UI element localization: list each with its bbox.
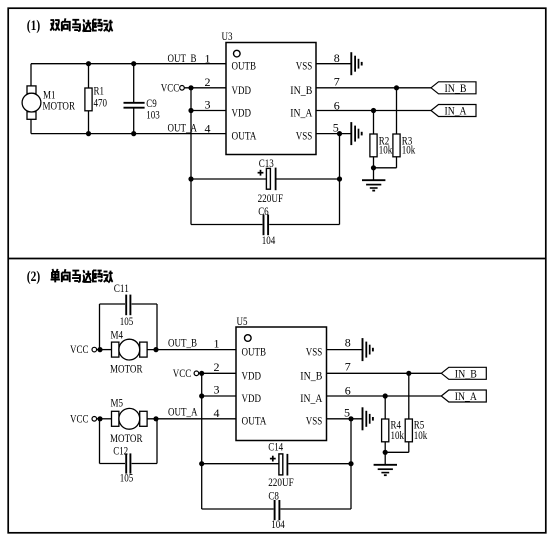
svg-text:IN_B: IN_B bbox=[445, 81, 467, 95]
svg-text:105: 105 bbox=[120, 470, 134, 484]
wire R3 top lead bbox=[396, 88, 398, 134]
junction C9/OUT_A bbox=[131, 131, 136, 136]
wire R2 top lead bbox=[373, 111, 375, 135]
junction R5/IN_B bbox=[406, 371, 411, 376]
wire VCC to M5 bbox=[97, 418, 112, 420]
wire motor M1 top lead bbox=[30, 64, 32, 86]
wire C8 right bbox=[281, 508, 352, 510]
svg-text:8: 8 bbox=[345, 336, 351, 350]
wire net IN_A (U5 pin6) bbox=[327, 395, 442, 397]
svg-text:VSS: VSS bbox=[296, 128, 313, 142]
wire ground stem bbox=[373, 168, 375, 180]
svg-text:OUTA: OUTA bbox=[242, 414, 267, 428]
capacitor C14 plates (polarized) bbox=[279, 454, 283, 475]
port flag IN_A bbox=[431, 104, 476, 118]
svg-text:4: 4 bbox=[205, 121, 211, 135]
svg-text:8: 8 bbox=[334, 51, 340, 65]
resistor R5 bbox=[405, 419, 412, 442]
wire U5 pin 5 to ground bbox=[327, 418, 363, 420]
wire motor M1 bottom lead bbox=[30, 119, 32, 133]
svg-text:2: 2 bbox=[214, 360, 220, 374]
wire C14 left bbox=[202, 463, 279, 465]
chip U3 body bbox=[226, 43, 316, 155]
svg-text:10k: 10k bbox=[414, 428, 428, 442]
port flag IN_B bbox=[431, 81, 476, 95]
svg-text:VCC: VCC bbox=[173, 366, 192, 380]
wire R3 to R2 junction bbox=[374, 167, 397, 169]
svg-text:VCC: VCC bbox=[70, 342, 89, 356]
junction R2/IN_A bbox=[371, 108, 376, 113]
wire net OUT_B (pin1) bbox=[31, 63, 226, 65]
motor M5 bbox=[112, 408, 148, 429]
wire R1 top lead bbox=[88, 64, 90, 88]
junction pin5/cap rail bbox=[337, 131, 342, 136]
svg-text:104: 104 bbox=[262, 233, 276, 247]
section divider line bbox=[8, 258, 546, 260]
wire C12 loop bottom left bbox=[100, 463, 126, 465]
junction M4/C11 right bbox=[153, 347, 158, 352]
svg-text:6: 6 bbox=[345, 383, 351, 397]
svg-text:10k: 10k bbox=[402, 142, 416, 156]
section 1 title "(1) 双向马达驱动" bbox=[27, 18, 41, 34]
junction VCC rail top bbox=[188, 85, 193, 90]
svg-text:3: 3 bbox=[205, 98, 211, 112]
wire VCC to pin 2 bbox=[184, 87, 226, 89]
capacitor C9 plates bbox=[124, 103, 145, 108]
svg-text:4: 4 bbox=[214, 406, 220, 420]
wire net IN_B (pin7) bbox=[316, 87, 431, 89]
junction rail/C13 bbox=[188, 176, 193, 181]
wire R4 bottom lead bbox=[384, 442, 386, 453]
svg-text:1: 1 bbox=[214, 337, 220, 351]
svg-text:220UF: 220UF bbox=[268, 475, 294, 489]
junction R1/OUT_B bbox=[86, 61, 91, 66]
svg-text:(1): (1) bbox=[27, 18, 41, 34]
wire net IN_B (U5 pin7) bbox=[327, 372, 442, 374]
svg-text:IN_B: IN_B bbox=[300, 368, 322, 382]
wire R3 bottom lead bbox=[396, 157, 398, 168]
svg-text:OUT_A: OUT_A bbox=[168, 405, 198, 419]
svg-text:VDD: VDD bbox=[232, 83, 252, 97]
svg-text:C14: C14 bbox=[268, 439, 283, 453]
wire R5 to R4 junction bbox=[385, 451, 409, 453]
wire U5 pin 8 to ground bbox=[327, 349, 363, 351]
wire VCC vertical rail down to C8 bbox=[201, 373, 203, 509]
junction pin5/cap rail (sec2) bbox=[348, 416, 353, 421]
wire C13 left bbox=[191, 178, 266, 180]
svg-text:6: 6 bbox=[334, 98, 340, 112]
ground (rotated) at pin 8 bbox=[351, 52, 361, 75]
wire C11 left vertical bbox=[99, 304, 101, 350]
svg-text:MOTOR: MOTOR bbox=[43, 99, 76, 113]
svg-text:IN_A: IN_A bbox=[455, 389, 477, 403]
junction R4/R5/ground bbox=[383, 450, 388, 455]
svg-text:7: 7 bbox=[334, 74, 340, 88]
wire C12 loop bottom right bbox=[132, 463, 157, 465]
C14 plus sign bbox=[270, 456, 276, 462]
wire C11 loop top left bbox=[100, 303, 126, 305]
svg-text:10k: 10k bbox=[391, 428, 405, 442]
svg-text:VCC: VCC bbox=[161, 80, 180, 94]
svg-text:VSS: VSS bbox=[306, 414, 323, 428]
terminal circle VCC pin2 bbox=[194, 371, 199, 376]
svg-text:OUT_B: OUT_B bbox=[168, 336, 197, 350]
svg-text:VDD: VDD bbox=[242, 391, 262, 405]
ground (rotated) at pin 5 bbox=[351, 122, 361, 145]
terminal circle VCC M4 bbox=[92, 347, 97, 352]
wire VCC to U5 pin 3 bbox=[202, 395, 236, 397]
wire C14 right bbox=[288, 463, 351, 465]
svg-text:1: 1 bbox=[205, 52, 211, 66]
wire C6 left bbox=[191, 224, 262, 226]
C13 plus sign bbox=[258, 170, 264, 176]
wire C11 loop top right bbox=[132, 303, 157, 305]
svg-text:IN_B: IN_B bbox=[455, 367, 477, 381]
svg-text:OUT_B: OUT_B bbox=[168, 51, 197, 65]
wire R2 bottom lead bbox=[373, 157, 375, 168]
svg-text:VDD: VDD bbox=[242, 368, 262, 382]
svg-text:7: 7 bbox=[345, 360, 351, 374]
resistor R4 bbox=[382, 419, 389, 442]
wire net OUT_A to U5 pin4 bbox=[147, 418, 236, 420]
wire net IN_A (pin6) bbox=[316, 110, 431, 112]
motor M4 bbox=[112, 339, 148, 360]
terminal circle VCC bbox=[180, 86, 185, 91]
wire R4 top lead bbox=[384, 396, 386, 419]
svg-text:(2): (2) bbox=[27, 269, 41, 285]
resistor R3 bbox=[393, 134, 400, 157]
junction rail/pin3 (sec2) bbox=[199, 393, 204, 398]
junction VCC/C11 left bbox=[97, 347, 102, 352]
svg-text:VSS: VSS bbox=[296, 59, 313, 73]
svg-text:OUT_A: OUT_A bbox=[168, 121, 198, 135]
svg-text:IN_A: IN_A bbox=[300, 391, 322, 405]
wire net OUT_A (pin4) bbox=[31, 133, 226, 135]
svg-text:IN_A: IN_A bbox=[445, 104, 467, 118]
junction R1/OUT_A bbox=[86, 131, 91, 136]
svg-text:VSS: VSS bbox=[306, 345, 323, 359]
wire ground stem (sec2) bbox=[384, 452, 386, 464]
wire C9 top lead bbox=[133, 64, 135, 102]
wire C12 left vertical bbox=[99, 419, 101, 464]
motor M1 bbox=[22, 86, 41, 119]
junction R2/R3/ground bbox=[371, 165, 376, 170]
wire C12 right vertical bbox=[156, 419, 158, 464]
port flag IN_A (sec2) bbox=[441, 389, 486, 403]
U3 pin-1 indicator circle bbox=[234, 50, 241, 57]
svg-text:2: 2 bbox=[205, 75, 211, 89]
junction VCC rail top (sec2) bbox=[199, 371, 204, 376]
svg-text:IN_A: IN_A bbox=[290, 106, 312, 120]
wire VCC to pin 3 bbox=[191, 110, 226, 112]
junction VSS rail/C14 bbox=[348, 461, 353, 466]
svg-text:470: 470 bbox=[94, 95, 108, 109]
terminal circle VCC M5 bbox=[92, 417, 97, 422]
wire pin 8 to ground bbox=[316, 63, 351, 65]
svg-text:220UF: 220UF bbox=[258, 191, 284, 205]
svg-text:VDD: VDD bbox=[232, 106, 252, 120]
resistor R2 bbox=[370, 134, 377, 157]
junction R3/IN_B bbox=[394, 85, 399, 90]
junction R4/IN_A bbox=[383, 393, 388, 398]
wire R5 bottom lead bbox=[408, 442, 410, 453]
svg-text:OUTA: OUTA bbox=[232, 128, 257, 142]
wire C9 bottom lead bbox=[133, 108, 135, 133]
junction VSS rail/C13 bbox=[337, 176, 342, 181]
section 2 title "(2) 单向马达驱动" bbox=[27, 269, 41, 285]
wire C8 left bbox=[202, 508, 274, 510]
earth ground below R4/R5 bbox=[374, 465, 397, 475]
svg-text:105: 105 bbox=[120, 314, 134, 328]
capacitor C11 plates bbox=[126, 295, 130, 316]
capacitor C12 plates bbox=[126, 453, 130, 473]
chip U5 body bbox=[236, 327, 327, 441]
wire VSS vertical rail down to C8 (sec2) bbox=[350, 419, 352, 509]
svg-text:OUTB: OUTB bbox=[232, 59, 257, 73]
svg-text:M4: M4 bbox=[111, 327, 124, 341]
wire C6 right bbox=[269, 224, 339, 226]
wire pin 5 to ground bbox=[316, 133, 351, 135]
svg-text:10k: 10k bbox=[379, 142, 393, 156]
resistor R1 bbox=[85, 88, 92, 111]
svg-text:U5: U5 bbox=[237, 314, 248, 328]
junction M5/C12 right bbox=[153, 416, 158, 421]
svg-text:104: 104 bbox=[271, 517, 285, 531]
svg-text:OUTB: OUTB bbox=[242, 345, 267, 359]
capacitor C6 plates bbox=[264, 215, 269, 236]
wire C11 right vertical bbox=[156, 304, 158, 350]
junction VCC/C12 left bbox=[97, 416, 102, 421]
U5 pin-1 indicator circle bbox=[245, 335, 252, 342]
junction rail/C14 bbox=[199, 461, 204, 466]
wire VSS vertical rail down to C6 bbox=[339, 134, 341, 225]
capacitor C13 plates (polarized) bbox=[266, 168, 270, 189]
svg-text:U3: U3 bbox=[222, 29, 233, 43]
ground (rotated) at U5 pin 5 bbox=[363, 407, 373, 430]
svg-text:103: 103 bbox=[146, 108, 160, 122]
wire R5 top lead bbox=[408, 373, 410, 419]
ground (rotated) at U5 pin 8 bbox=[363, 338, 373, 361]
wire net OUT_B to U5 pin1 bbox=[147, 349, 236, 351]
wire VCC to M4 bbox=[97, 349, 112, 351]
earth ground below R2/R3 bbox=[362, 180, 385, 190]
svg-text:M5: M5 bbox=[111, 395, 124, 409]
svg-text:3: 3 bbox=[214, 383, 220, 397]
svg-text:VCC: VCC bbox=[70, 411, 89, 425]
wire VCC vertical rail down to C6 bbox=[190, 88, 192, 225]
wire C13 right bbox=[277, 178, 340, 180]
wire VCC to U5 pin 2 bbox=[199, 372, 236, 374]
svg-text:C11: C11 bbox=[114, 281, 129, 295]
svg-text:IN_B: IN_B bbox=[290, 83, 312, 97]
junction rail/pin3 bbox=[188, 108, 193, 113]
capacitor C8 plates bbox=[275, 500, 280, 520]
junction C9/OUT_B bbox=[131, 61, 136, 66]
svg-text:MOTOR: MOTOR bbox=[110, 361, 143, 375]
wire R1 bottom lead bbox=[88, 111, 90, 134]
port flag IN_B (sec2) bbox=[441, 367, 486, 381]
